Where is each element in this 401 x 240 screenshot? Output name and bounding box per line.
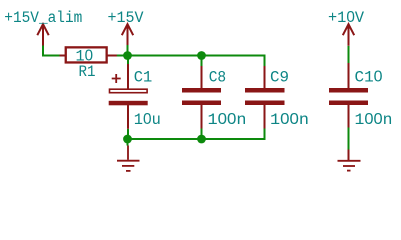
svg-text:C10: C10 [355, 68, 383, 86]
svg-text:+15V: +15V [108, 9, 145, 27]
svg-text:C8: C8 [209, 68, 227, 86]
svg-text:100n: 100n [355, 111, 393, 129]
svg-text:C9: C9 [270, 68, 289, 86]
svg-text:+15V_alim: +15V_alim [4, 9, 82, 27]
svg-text:100n: 100n [270, 111, 309, 129]
svg-text:+10V: +10V [328, 9, 365, 27]
svg-text:C1: C1 [134, 68, 153, 86]
svg-text:10u: 10u [134, 111, 161, 129]
svg-text:100n: 100n [208, 111, 247, 129]
svg-text:R1: R1 [79, 63, 96, 81]
